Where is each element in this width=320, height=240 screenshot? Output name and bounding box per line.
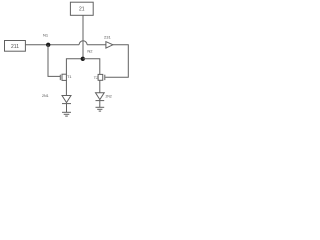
ground (left)	[62, 112, 71, 116]
node N2 junction dot	[81, 57, 85, 61]
diode D1 cathode bar	[62, 103, 71, 105]
svg-text:2N2: 2N2	[106, 94, 112, 98]
transistor T2 body	[98, 74, 103, 80]
wire hop over vertical (crossover bump)	[79, 41, 87, 45]
svg-text:2N1: 2N1	[42, 94, 49, 98]
wire hop to inverter input (main bus right)	[87, 44, 106, 46]
svg-text:T1: T1	[67, 75, 71, 79]
block 211 (left box)	[5, 41, 26, 52]
svg-text:N2: N2	[87, 49, 93, 54]
wire node N2 right and down to T2 drain	[83, 59, 100, 75]
svg-text:T2: T2	[94, 76, 98, 80]
svg-text:21: 21	[79, 7, 85, 13]
block 21 (top box)	[70, 2, 93, 15]
wire T2 source down to diode D2	[99, 80, 101, 93]
ground (right)	[96, 107, 105, 111]
transistor T2 gate bar	[104, 75, 106, 80]
inverter 231 (buffer triangle)	[106, 42, 113, 49]
wire T1 source down to diode D1	[65, 80, 67, 95]
diode D2 (right, anode triangle)	[96, 93, 105, 100]
transistor T1 body	[62, 74, 66, 80]
diode D1 (left, anode triangle)	[62, 96, 71, 103]
wire T1 drain up and right to node N2	[66, 59, 82, 74]
node N1 junction dot	[46, 43, 50, 47]
diode D2 cathode bar	[96, 100, 105, 102]
wire inverter output down to T2 gate	[105, 45, 128, 77]
wire from block 21 down through hop to node N2	[82, 15, 84, 59]
svg-text:N1: N1	[43, 32, 49, 37]
wire diode D2 to ground	[99, 101, 101, 108]
wire 211 output to hop (main bus left)	[25, 44, 79, 46]
svg-text:211: 211	[11, 44, 19, 50]
wire diode D1 to ground	[66, 104, 68, 113]
transistor T1 gate bar	[59, 75, 61, 80]
wire node N1 to T1 gate	[48, 45, 60, 77]
svg-text:231: 231	[104, 35, 111, 40]
